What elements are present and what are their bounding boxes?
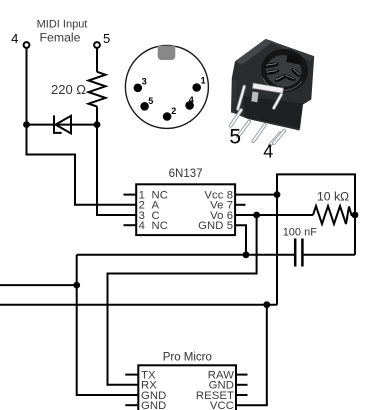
photo back legs <box>238 87 281 110</box>
svg-text:Female: Female <box>39 31 80 45</box>
svg-text:4: 4 <box>189 95 194 105</box>
DIN connector photo <box>229 39 314 161</box>
wire cap right <box>304 254 355 256</box>
svg-text:6N137: 6N137 <box>169 168 203 180</box>
photo recess rim <box>259 46 311 94</box>
stub Pro Micro GND4 NC <box>125 404 138 406</box>
svg-text:5: 5 <box>103 31 110 46</box>
svg-text:Pro Micro: Pro Micro <box>163 352 212 364</box>
svg-text:2: 2 <box>171 106 176 116</box>
photo front legs <box>231 110 285 145</box>
svg-text:5: 5 <box>229 126 241 149</box>
wire pin4 to 6N137 pin2 <box>27 125 137 205</box>
svg-text:GND: GND <box>141 400 166 410</box>
wire VCC to Pro Micro <box>236 305 267 406</box>
wire pin4 down <box>26 49 28 125</box>
junction diode left <box>23 121 30 128</box>
stub Pro Micro RESET NC <box>236 394 248 396</box>
label MIDI Input Female <box>37 19 88 45</box>
terminal pin 5 <box>94 42 100 48</box>
stub Pro Micro RAW NC <box>236 374 248 376</box>
photo bracket shadow <box>243 96 303 129</box>
svg-text:4: 4 <box>11 31 18 46</box>
terminal pin 4 label <box>11 31 18 46</box>
stub 6N137 Ve7 NC <box>235 204 245 206</box>
diode D1 <box>54 115 71 133</box>
photo keyway <box>286 55 301 65</box>
wire resistor to 6N137 pin3 <box>97 107 136 216</box>
wire Vo6 to resistor <box>235 214 313 216</box>
photo recess face <box>264 53 303 89</box>
svg-text:10 kΩ: 10 kΩ <box>317 190 349 204</box>
photo metal tab <box>252 83 283 93</box>
wire GND5 down <box>235 225 246 255</box>
svg-text:4: 4 <box>263 141 273 161</box>
photo top face band right <box>266 39 315 61</box>
DIN-5 front view circle <box>125 45 208 128</box>
IC 6N137 box <box>136 168 235 235</box>
photo metal piece <box>251 92 258 103</box>
svg-text:220 Ω: 220 Ω <box>51 82 86 97</box>
wire GND to left edge <box>0 284 77 286</box>
capacitor 100nF <box>295 239 302 267</box>
Pro Micro pin labels left <box>141 369 166 410</box>
DIN pin 5 <box>140 96 153 110</box>
IC Pro Micro box <box>138 352 236 410</box>
DIN pin 3 <box>134 76 147 92</box>
wire cap left <box>77 254 294 256</box>
svg-text:MIDI Input: MIDI Input <box>37 19 88 31</box>
photo socket holes <box>264 62 302 84</box>
wire VCC to left edge <box>0 304 277 306</box>
label 220 ohm <box>51 82 86 97</box>
svg-text:VCC: VCC <box>210 400 234 410</box>
label 100nF <box>283 227 318 239</box>
svg-text:GND 5: GND 5 <box>198 220 233 232</box>
stub Pro Micro TX NC <box>125 374 138 376</box>
wire diode row <box>27 124 98 126</box>
junction GND5 cap <box>243 251 250 258</box>
junction Vcc8 <box>274 191 281 198</box>
photo flange highlight <box>232 79 238 105</box>
svg-text:1: 1 <box>201 76 206 86</box>
photo recess ring glint <box>263 78 302 90</box>
resistor 220 ohm <box>89 72 106 107</box>
photo top face band left <box>235 39 274 65</box>
svg-text:4 NC: 4 NC <box>139 220 168 232</box>
terminal pin 5 label <box>103 31 110 46</box>
DIN pin 4 <box>185 95 194 110</box>
resistor 10k <box>313 206 355 224</box>
stub 6N137 pin1 NC <box>124 194 137 196</box>
svg-text:5: 5 <box>148 96 153 106</box>
svg-text:3: 3 <box>142 76 147 86</box>
stub Pro Micro GND right NC <box>236 384 248 386</box>
DIN pin 1 <box>192 76 205 92</box>
Pro Micro pin labels right <box>196 369 234 410</box>
junction VCC branch <box>263 301 270 308</box>
junction resistor right <box>352 212 359 219</box>
photo body outline <box>231 39 314 131</box>
junction diode right <box>94 121 101 128</box>
terminal pin 4 <box>24 42 30 48</box>
label 10k <box>317 190 349 204</box>
svg-text:100 nF: 100 nF <box>283 227 318 239</box>
6N137 pin labels right <box>198 190 233 233</box>
wire pin5 down <box>96 49 98 72</box>
wire top rail <box>277 174 355 304</box>
DIN pin 2 <box>163 106 176 121</box>
DIN notch <box>158 46 176 60</box>
junction GND left <box>73 282 80 289</box>
wire Vcc8 to rail <box>235 194 277 196</box>
junction Vo6 <box>253 212 260 219</box>
wire Vo to RX <box>108 215 257 385</box>
wire GND vertical left <box>77 255 139 395</box>
stub 6N137 pin4 NC <box>124 224 137 226</box>
6N137 pin labels left <box>139 190 168 233</box>
